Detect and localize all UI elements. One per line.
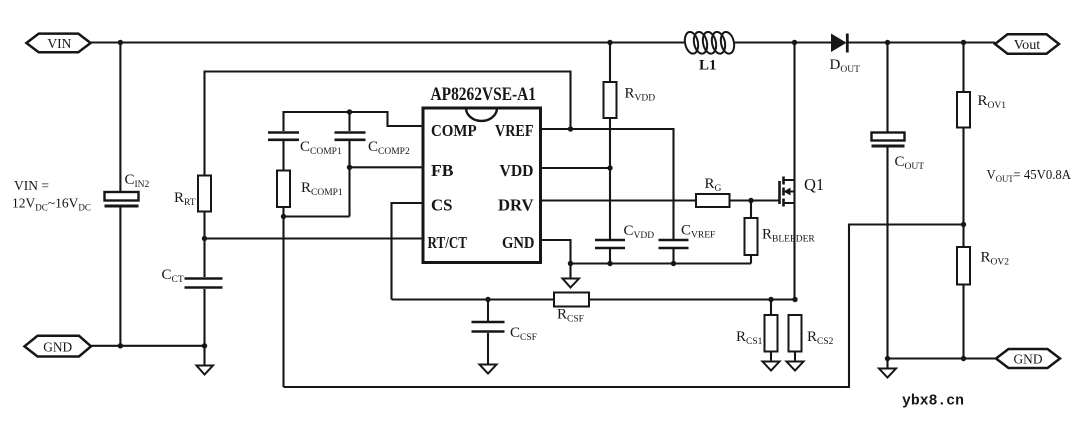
wire ground bus xyxy=(571,262,752,264)
wire output ground line xyxy=(888,357,997,359)
wire RT/CT pin line xyxy=(205,237,424,239)
wire RCOMP1 bottom xyxy=(282,207,284,217)
ground at CCT xyxy=(197,366,214,375)
svg-text:FB: FB xyxy=(431,161,454,180)
wire ROV2 leads xyxy=(962,225,964,248)
capacitor CCOMP2 xyxy=(335,133,366,140)
terminal GND right xyxy=(996,349,1060,368)
svg-text:Vout: Vout xyxy=(1014,38,1041,53)
svg-text:GND: GND xyxy=(43,340,72,355)
resistor ROV2 xyxy=(957,247,970,285)
svg-text:CS: CS xyxy=(431,196,453,215)
wire COMP network top xyxy=(284,112,424,131)
wire rail2 RRT-to-VREF xyxy=(205,72,571,176)
wire VDD pin line xyxy=(541,167,611,169)
node comp top xyxy=(347,109,352,114)
terminal Vout xyxy=(995,34,1059,53)
wire gnd stem at COUT xyxy=(886,359,888,369)
svg-text:VREF: VREF xyxy=(495,121,534,140)
svg-text:RT/CT: RT/CT xyxy=(428,233,468,252)
node CIN2 top xyxy=(118,40,123,45)
terminal VIN xyxy=(26,34,90,53)
node CCSF top xyxy=(485,297,490,302)
svg-text:VIN =: VIN = xyxy=(14,178,49,193)
wire CVDD bottom xyxy=(609,249,611,264)
wire CCSF branch xyxy=(487,300,489,322)
wire current sense line xyxy=(392,298,796,300)
op-amp U1 IC body AP8262VSE-A1 xyxy=(423,108,541,263)
resistor RCS2 xyxy=(789,315,802,352)
svg-text:COMP: COMP xyxy=(431,121,477,140)
capacitor CIN2 (electrolytic) xyxy=(105,192,139,206)
node Q1 drain rail xyxy=(792,40,797,45)
wire CCOMP1 to RCOMP1 xyxy=(282,141,284,171)
node RCS2 top xyxy=(792,297,797,302)
diode DOUT xyxy=(831,34,847,53)
capacitor CCSF xyxy=(472,322,505,332)
ground at RCS1 xyxy=(763,362,780,371)
node VREF xyxy=(568,126,573,131)
node CVDD bottom xyxy=(607,261,612,266)
wire RBLEEDER leads xyxy=(750,201,752,219)
svg-text:DRV: DRV xyxy=(498,196,534,215)
wire CCOMP2 vertical xyxy=(348,112,350,131)
resistor RCOMP1 xyxy=(277,171,290,208)
wire comp network bottom link xyxy=(284,215,350,217)
wire RCS1 leads xyxy=(770,300,772,316)
svg-text:AP8262VSE-A1: AP8262VSE-A1 xyxy=(431,85,537,105)
wire CCT branch xyxy=(203,239,205,278)
capacitor CVDD xyxy=(595,240,625,248)
node ROV2 bottom xyxy=(961,356,966,361)
inductor L1 xyxy=(683,31,736,55)
node gnd bus left xyxy=(568,261,573,266)
node junction dots xyxy=(118,40,967,361)
ground at IC GND pin xyxy=(563,279,580,288)
node COUT top xyxy=(885,40,890,45)
wire CIN2 branch xyxy=(119,43,121,193)
wire ROV1 leads xyxy=(962,43,964,93)
wire RVDD top lead xyxy=(609,43,611,83)
node CVREF bottom xyxy=(671,261,676,266)
ground at COUT xyxy=(879,369,896,378)
wire FB pin line xyxy=(350,166,424,168)
wire CS pin drop xyxy=(392,203,424,300)
resistor ROV1 xyxy=(957,92,970,128)
capacitor COUT (electrolytic) xyxy=(872,133,905,147)
node ROV1 top xyxy=(961,40,966,45)
wire VREF pin line xyxy=(541,129,674,239)
wire RCS2 leads xyxy=(794,352,796,362)
node COUT bottom xyxy=(885,356,890,361)
resistor RBLEEDER xyxy=(745,218,758,255)
wire GND pin xyxy=(541,240,571,264)
resistor RCS1 xyxy=(765,315,778,352)
wire RRT bottom xyxy=(203,212,205,239)
node RVDD top xyxy=(607,40,612,45)
ground at CCSF xyxy=(480,365,497,374)
node FB xyxy=(347,165,352,170)
capacitor CCT xyxy=(185,279,223,288)
svg-text:L1: L1 xyxy=(699,58,717,74)
resistor RG xyxy=(696,194,730,207)
wire GND left rail xyxy=(91,345,205,347)
wire top rail VIN to L1 xyxy=(91,41,684,43)
wire RVDD bottom to CVDD xyxy=(609,118,611,239)
transistor Q1 xyxy=(780,177,795,207)
svg-text:VDD: VDD xyxy=(500,161,534,180)
svg-text:Q1: Q1 xyxy=(804,175,824,194)
wire top rail diode to Vout xyxy=(848,41,995,43)
node RT/CT xyxy=(202,236,207,241)
node divider xyxy=(961,222,966,227)
svg-text:VIN: VIN xyxy=(47,37,71,52)
wire top rail L1 to diode xyxy=(735,41,831,43)
terminal GND left xyxy=(25,336,92,357)
node RCS1 top xyxy=(768,297,773,302)
wire CVREF bottom xyxy=(672,249,674,264)
node gate RBLEEDER xyxy=(748,198,753,203)
node CCT bottom xyxy=(202,343,207,348)
capacitor CVREF xyxy=(659,240,689,248)
wire feedback divider drop xyxy=(282,217,284,388)
svg-text:GND: GND xyxy=(502,233,535,252)
wire gnd stem below bus xyxy=(569,264,571,279)
resistor RRT xyxy=(198,176,211,212)
wire bottom feedback run xyxy=(284,225,964,388)
wire COUT branch xyxy=(886,43,888,133)
wire DRV pin line to gate xyxy=(541,199,779,201)
node VDD xyxy=(607,165,612,170)
capacitor CCOMP1 xyxy=(268,133,299,140)
node CIN2 bottom xyxy=(118,343,123,348)
resistor RCSF xyxy=(554,293,589,307)
ground at RCS2 xyxy=(787,362,804,371)
svg-text:ybx8.cn: ybx8.cn xyxy=(902,394,964,410)
wire Q1 right vertical xyxy=(793,180,795,300)
resistor RVDD xyxy=(604,82,617,118)
svg-text:GND: GND xyxy=(1014,353,1043,368)
node RCOMP1 bottom xyxy=(281,214,286,219)
wire Q1 drain drop xyxy=(793,43,795,181)
